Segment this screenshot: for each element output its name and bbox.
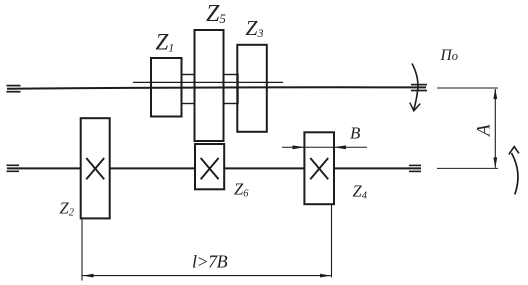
svg-text:Z6: Z6 (234, 180, 249, 200)
svg-text:По: По (440, 47, 458, 64)
svg-text:Z1: Z1 (156, 30, 175, 55)
svg-text:l>7В: l>7В (192, 252, 228, 272)
svg-text:Z5: Z5 (206, 1, 226, 27)
svg-text:Z3: Z3 (246, 16, 264, 40)
svg-text:Z2: Z2 (60, 199, 75, 219)
svg-text:А: А (473, 124, 494, 138)
svg-text:В: В (350, 124, 361, 143)
svg-text:Z4: Z4 (353, 182, 368, 202)
